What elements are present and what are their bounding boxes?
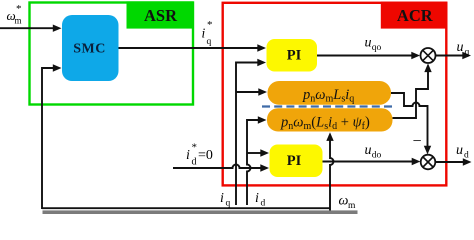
wire: id* = 0 reference with hop over iq vertical <box>173 165 262 168</box>
svg-text:ACR: ACR <box>397 6 434 25</box>
svg-text:ω: ω <box>339 194 349 209</box>
svg-text:u: u <box>365 36 372 51</box>
svg-text:i: i <box>202 26 206 41</box>
svg-text:PI: PI <box>287 153 302 169</box>
wire: iq feedback vertical <box>236 63 259 206</box>
wire: omega_m* reference input <box>0 27 54 29</box>
feedforward block q: pn*wm*Ls*iq <box>268 81 392 105</box>
wire: omega_m feedback to SMC <box>42 68 54 209</box>
svg-text:u: u <box>456 143 463 158</box>
summing junction q <box>421 48 436 63</box>
wire: u_do from lower PI to d summing junction <box>323 161 414 163</box>
ASR label box <box>127 1 194 28</box>
wire: u_q output <box>436 55 464 57</box>
svg-text:q: q <box>465 48 470 58</box>
svg-text:do: do <box>372 151 382 161</box>
svg-text:u: u <box>365 143 372 158</box>
wire: u_qo from upper PI to q summing junction <box>317 55 413 57</box>
PI controller upper (q-axis) <box>267 39 318 72</box>
wire: iq branch to feedforward q <box>236 91 260 93</box>
svg-text:*: * <box>207 19 213 31</box>
ACR block boundary <box>223 3 447 186</box>
svg-text:i: i <box>186 148 190 163</box>
svg-text:−: − <box>413 133 422 150</box>
svg-text:m: m <box>15 16 22 26</box>
svg-text:qo: qo <box>372 43 382 53</box>
svg-text:q: q <box>226 199 231 209</box>
wire: id feedback vertical with hop over id* line <box>247 120 260 205</box>
svg-text:SMC: SMC <box>73 41 106 56</box>
decoupling dashed line <box>262 105 394 107</box>
svg-text:i: i <box>220 191 224 206</box>
wire: u_d output <box>435 161 464 163</box>
feedforward block d: pn*wm*(Ls*id + psi_f) <box>267 108 393 131</box>
wire: feedforward q output to d summing junction (with hop) <box>391 93 428 151</box>
PI controller lower (d-axis) <box>270 145 323 178</box>
summing junction d <box>421 155 436 170</box>
svg-text:q: q <box>207 37 212 47</box>
ASR block boundary <box>30 3 194 105</box>
ACR label box <box>381 2 447 29</box>
wire: omega_m vertical to feedforward d (with hop over u_do) <box>330 136 334 211</box>
wire: feedforward d output to q summing junction <box>393 67 429 118</box>
gray bar (top edge of cropped plant block) <box>43 210 358 214</box>
svg-text:d: d <box>192 157 197 168</box>
SMC controller block U1 <box>62 15 119 81</box>
svg-text:ASR: ASR <box>144 6 178 25</box>
wire: id branch to lower PI <box>247 152 262 154</box>
svg-text:*: * <box>192 142 198 154</box>
svg-text:*: * <box>16 3 22 15</box>
svg-text:d: d <box>261 199 266 209</box>
svg-text:=0: =0 <box>198 148 213 163</box>
wire: bottom rail <box>42 207 330 209</box>
wire: iq* from SMC to upper PI <box>119 47 259 49</box>
svg-text:i: i <box>255 191 259 206</box>
svg-text:d: d <box>464 151 469 161</box>
svg-text:PI: PI <box>287 47 302 63</box>
svg-text:u: u <box>457 40 464 55</box>
svg-text:m: m <box>348 201 356 211</box>
